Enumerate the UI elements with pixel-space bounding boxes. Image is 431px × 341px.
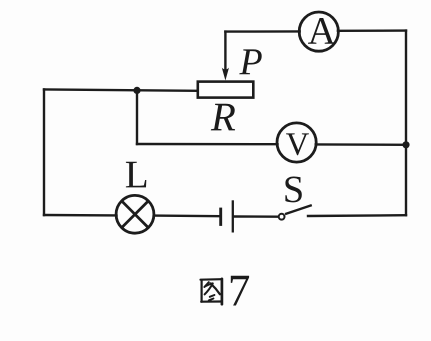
voltmeter label V <box>286 133 309 155</box>
lamp L circle <box>116 195 154 233</box>
wire voltmeter branch right <box>316 143 406 146</box>
node junction dot on top-left branch <box>133 87 140 94</box>
lamp cross stroke 2 <box>122 201 149 228</box>
resistor R (rheostat body) <box>198 82 254 98</box>
switch S pivot circle <box>279 214 285 220</box>
wire slider vertical <box>224 32 226 70</box>
node junction dot on right branch <box>402 141 409 148</box>
wire junction vertical (node to voltmeter branch) <box>136 90 138 144</box>
wire right vertical <box>405 31 407 216</box>
wire lamp to battery <box>154 214 220 217</box>
switch S lever <box>285 205 312 214</box>
battery negative plate (short) <box>219 208 222 226</box>
caption glyph: hand-drawn CJK tu (figure) <box>201 279 222 304</box>
wire ammeter to right vertical <box>338 29 406 32</box>
wire top-left horizontal <box>44 89 197 90</box>
wire voltmeter branch left <box>137 143 278 146</box>
wire switch to right corner <box>308 214 406 217</box>
wire battery to switch pivot <box>234 215 278 218</box>
label S for switch <box>285 177 301 203</box>
ammeter label A <box>308 18 336 44</box>
caption digit 7 <box>231 276 249 306</box>
lamp cross stroke 1 <box>122 201 149 228</box>
wire left vertical <box>43 89 45 215</box>
label P for slider <box>239 49 261 74</box>
slider arrowhead (wiper onto resistor) <box>222 68 229 81</box>
label R for resistor <box>211 104 235 131</box>
voltmeter U2 circle <box>277 123 316 162</box>
label L for lamp <box>126 162 146 188</box>
battery positive plate (long) <box>232 200 234 232</box>
ammeter U1 circle <box>299 12 338 51</box>
wire ammeter to slider corner <box>225 30 299 33</box>
wire bottom: left corner to lamp <box>44 214 117 217</box>
